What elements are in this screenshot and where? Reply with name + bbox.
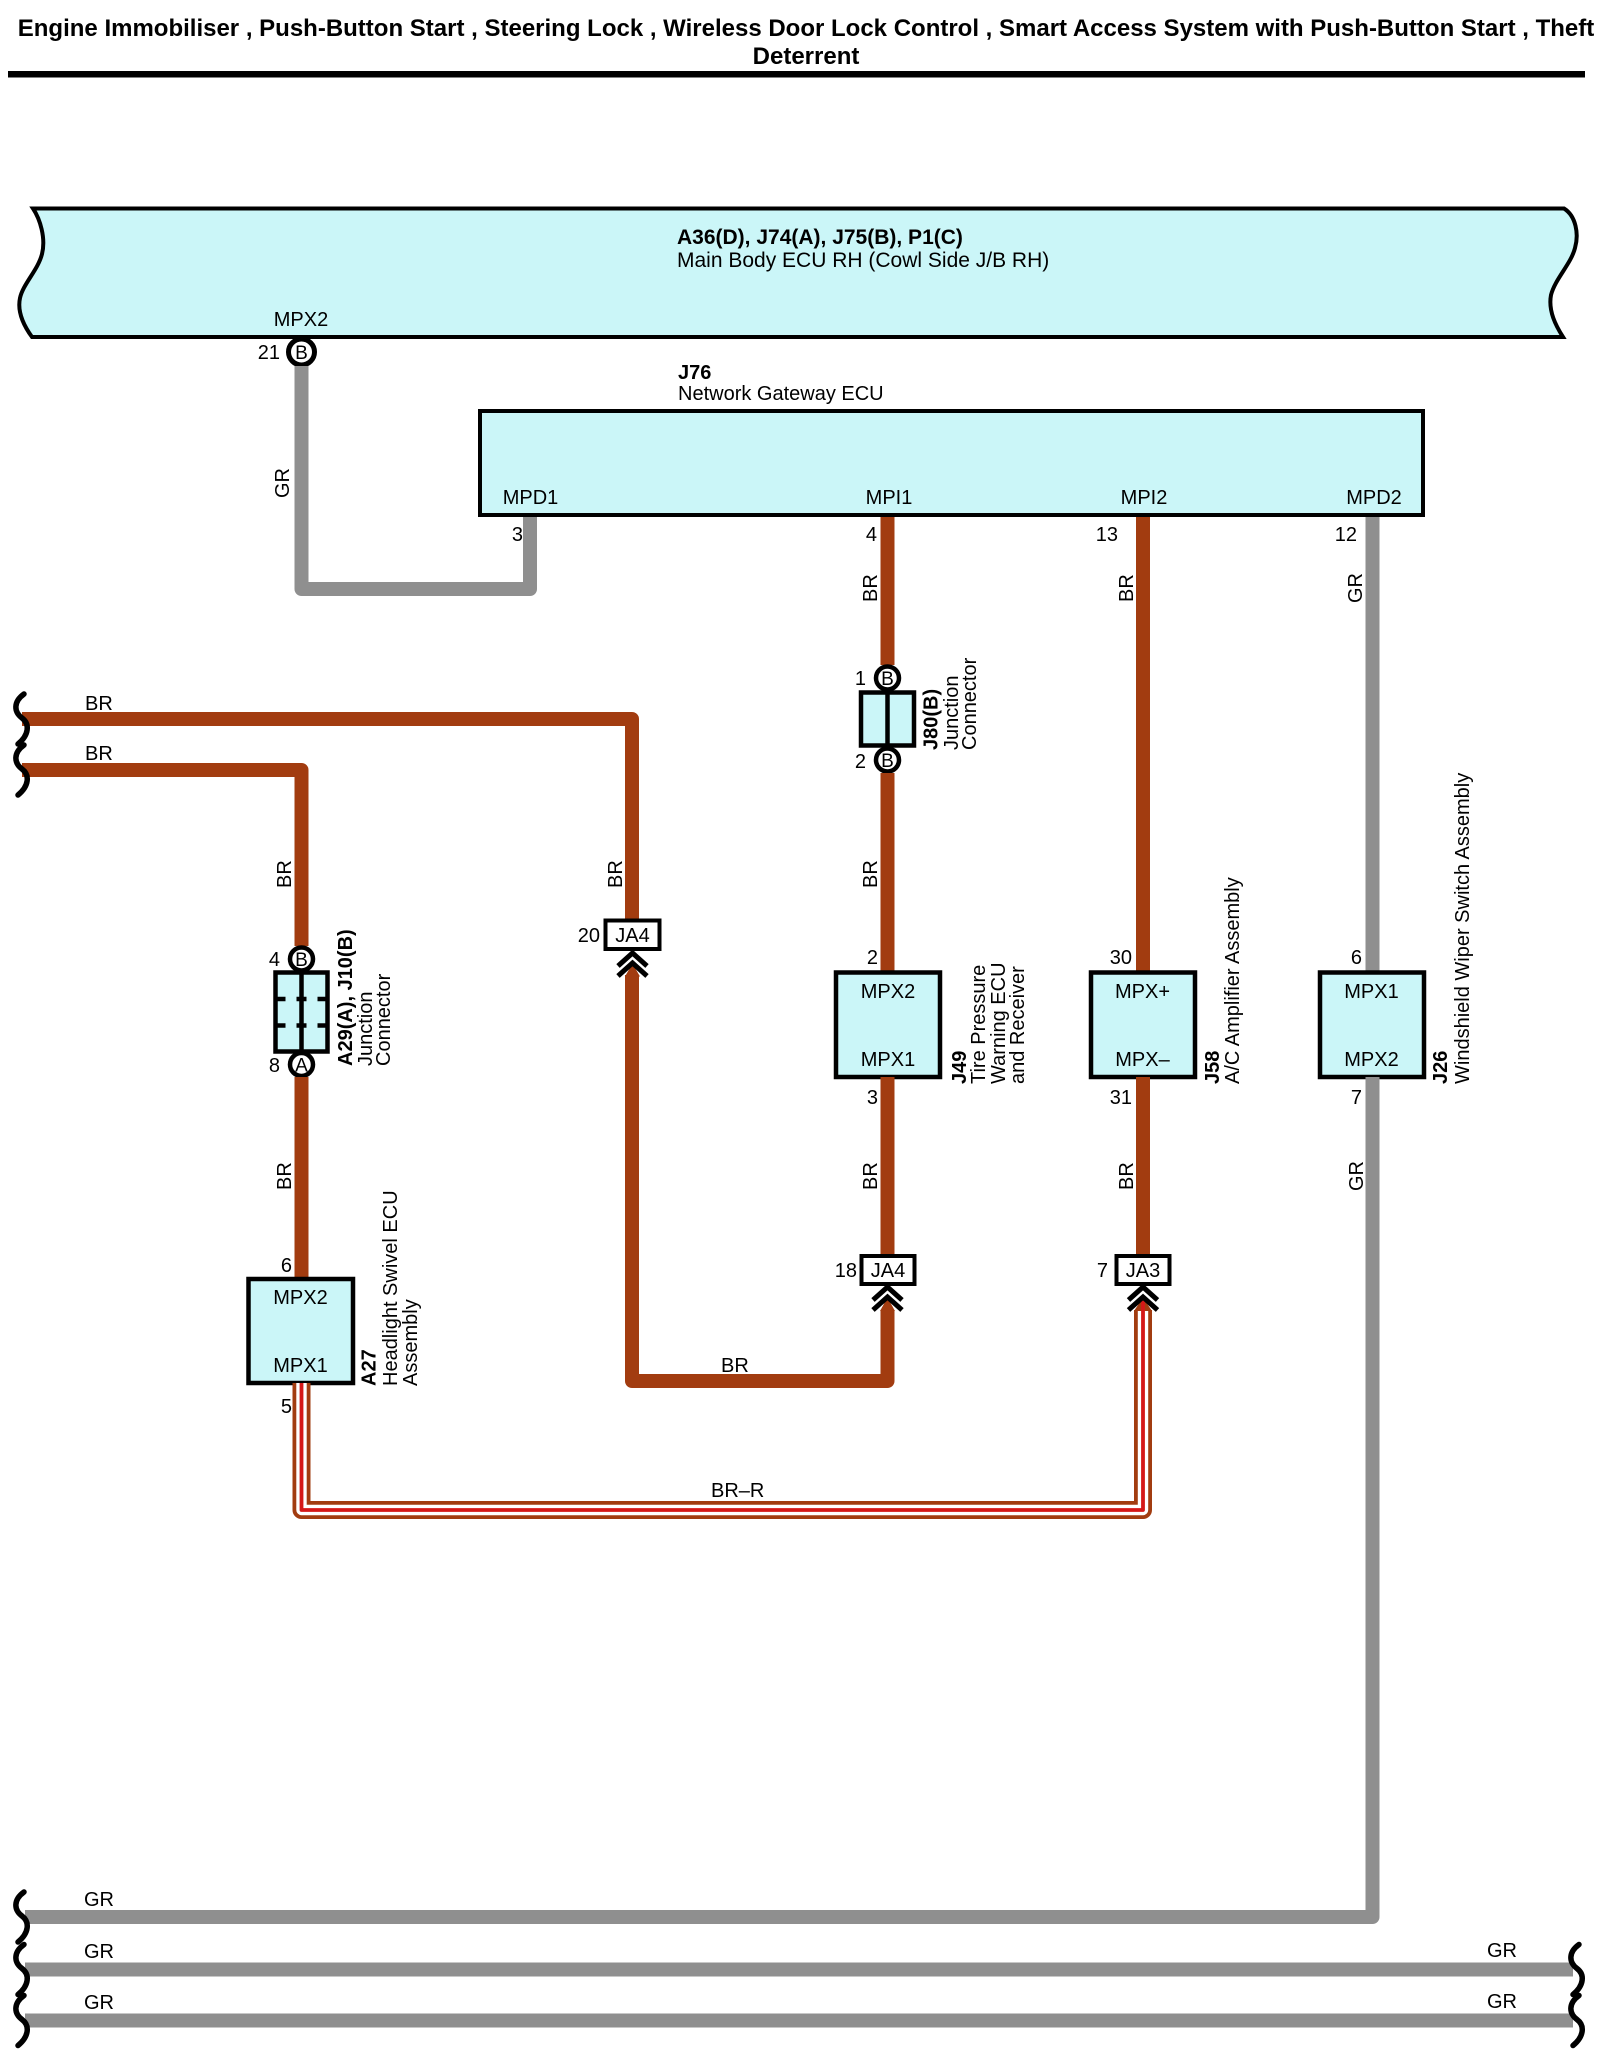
svg-text:BR: BR <box>860 574 882 602</box>
svg-text:3: 3 <box>512 524 523 546</box>
svg-text:MPD1: MPD1 <box>503 487 559 509</box>
svg-text:MPX2: MPX2 <box>1344 1049 1398 1071</box>
svg-text:JA4: JA4 <box>615 925 649 947</box>
svg-text:A: A <box>295 1056 308 1077</box>
svg-text:Connector: Connector <box>373 973 395 1066</box>
svg-text:Headlight Swivel ECU: Headlight Swivel ECU <box>380 1190 402 1386</box>
svg-text:7: 7 <box>1097 1260 1108 1282</box>
svg-text:5: 5 <box>281 1396 292 1418</box>
wire GR bottom horizontal 2 <box>25 1963 1573 1977</box>
ECU box J26 Windshield Wiper Switch Assembly <box>1320 773 1474 1109</box>
svg-text:GR: GR <box>1487 1940 1517 1962</box>
svg-text:A29(A), J10(B): A29(A), J10(B) <box>335 929 357 1066</box>
wire BR horizontal 2 to A29 junction <box>22 770 302 946</box>
svg-text:Connector: Connector <box>959 657 981 750</box>
svg-text:J26: J26 <box>1430 1051 1452 1084</box>
svg-text:GR: GR <box>1345 573 1367 603</box>
svg-text:J80(B): J80(B) <box>921 689 943 750</box>
wire BR A29 pin8 to A27 pin6 <box>295 1077 309 1279</box>
wire BR J76 MPI1 pin4 to J80 pin1 <box>881 517 895 665</box>
svg-text:B: B <box>881 669 894 690</box>
svg-text:B: B <box>881 751 894 772</box>
svg-text:30: 30 <box>1110 947 1132 969</box>
svg-text:Engine Immobiliser , Push-Butt: Engine Immobiliser , Push-Button Start ,… <box>18 15 1594 42</box>
svg-text:MPX2: MPX2 <box>861 981 915 1003</box>
svg-text:MPX2: MPX2 <box>274 309 328 331</box>
svg-text:BR: BR <box>605 860 627 888</box>
svg-text:Tire Pressure: Tire Pressure <box>968 965 990 1084</box>
svg-text:31: 31 <box>1110 1087 1132 1109</box>
wire BR J80 pin2 to J49 pin2 <box>881 773 895 973</box>
title underline <box>8 71 1585 78</box>
svg-text:Deterrent: Deterrent <box>753 43 860 70</box>
svg-text:BR: BR <box>274 1162 296 1190</box>
wire BR-R A27 pin5 to JA3(7) <box>302 1310 1144 1510</box>
svg-text:BR: BR <box>85 693 113 715</box>
title <box>18 15 1594 70</box>
svg-text:MPX+: MPX+ <box>1115 981 1170 1003</box>
junction connector A29(A), J10(B) <box>269 929 395 1077</box>
svg-text:8: 8 <box>269 1055 280 1077</box>
svg-text:13: 13 <box>1096 524 1118 546</box>
ECU box J49 Tire Pressure Warning ECU and Receiver <box>836 947 1029 1109</box>
squiggle wire break (wire 2 left) <box>16 745 27 795</box>
svg-text:MPX1: MPX1 <box>861 1049 915 1071</box>
wire BR horizontal top-left to JA4(20) <box>22 719 632 921</box>
svg-text:BR: BR <box>1116 1162 1138 1190</box>
wire GR J76 MPD2 pin12 to J26 <box>1366 517 1380 973</box>
svg-text:20: 20 <box>578 925 600 947</box>
svg-text:JA3: JA3 <box>1126 1260 1160 1282</box>
wire GR bottom horizontal 3 <box>25 2014 1573 2028</box>
svg-text:21: 21 <box>258 342 280 364</box>
wire BR J58 pin31 to JA3(7) <box>1136 1077 1150 1256</box>
svg-text:JA4: JA4 <box>871 1260 905 1282</box>
squiggle wire break (wire 1 left) <box>16 694 27 744</box>
svg-text:GR: GR <box>272 468 294 498</box>
wire GR J26 pin7 down to bottom horizontal <box>25 1077 1373 1917</box>
pointed wire cap below JA3(7) <box>1134 1298 1152 1312</box>
wire GR from 21(B) to J76 MPD1 pin 3 <box>302 366 531 589</box>
svg-text:A/C Amplifier Assembly: A/C Amplifier Assembly <box>1222 877 1244 1084</box>
svg-text:BR: BR <box>1116 574 1138 602</box>
svg-text:Windshield Wiper Switch Assemb: Windshield Wiper Switch Assembly <box>1452 773 1474 1084</box>
squiggle wire break (bottom wire 3 right) <box>1571 1996 1582 2046</box>
ECU box J76 Network Gateway ECU <box>480 362 1423 515</box>
svg-text:B: B <box>295 343 308 364</box>
svg-text:MPI1: MPI1 <box>866 487 913 509</box>
svg-text:2: 2 <box>855 751 866 773</box>
wire BR J49 pin3 to JA4(18) <box>881 1077 895 1256</box>
svg-text:3: 3 <box>867 1087 878 1109</box>
squiggle wire break (bottom wire 2 right) <box>1571 1945 1582 1995</box>
pointed wire cap below JA4(20) <box>625 964 640 977</box>
svg-text:GR: GR <box>84 1941 114 1963</box>
svg-text:GR: GR <box>1346 1161 1368 1191</box>
red stripe tip below JA3(7) <box>1141 1301 1145 1311</box>
connector JA4 (pin 18) <box>835 1256 915 1310</box>
svg-text:BR: BR <box>85 743 113 765</box>
svg-text:J58: J58 <box>1202 1051 1224 1084</box>
pin 21 connector circle B <box>258 339 315 365</box>
squiggle wire break (bottom wire 1 left) <box>16 1892 27 1942</box>
svg-text:MPX2: MPX2 <box>273 1287 327 1309</box>
wire BR J76 MPI2 pin13 to J58 <box>1136 517 1150 973</box>
svg-text:GR: GR <box>84 1889 114 1911</box>
svg-text:2: 2 <box>867 947 878 969</box>
svg-text:7: 7 <box>1351 1087 1362 1109</box>
ECU bar A36(D),J74(A),J75(B),P1(C) Main Body ECU RH <box>19 209 1576 338</box>
svg-text:BR–R: BR–R <box>711 1480 764 1502</box>
svg-text:BR: BR <box>274 860 296 888</box>
svg-text:BR: BR <box>721 1355 749 1377</box>
connector JA3 (pin 7) <box>1097 1256 1170 1310</box>
svg-text:A27: A27 <box>359 1349 381 1386</box>
svg-text:A36(D), J74(A), J75(B), P1(C): A36(D), J74(A), J75(B), P1(C) <box>677 226 963 249</box>
svg-text:MPX1: MPX1 <box>273 1355 327 1377</box>
svg-text:GR: GR <box>84 1992 114 2014</box>
svg-text:6: 6 <box>1351 947 1362 969</box>
svg-text:MPX1: MPX1 <box>1344 981 1398 1003</box>
junction connector J80(B) <box>855 657 981 773</box>
svg-text:GR: GR <box>1487 1991 1517 2013</box>
wire BR from JA4(20) down, across, up to JA4(18) <box>632 975 888 1381</box>
svg-text:Assembly: Assembly <box>400 1299 422 1386</box>
svg-text:4: 4 <box>866 524 877 546</box>
svg-text:1: 1 <box>855 668 866 690</box>
svg-text:12: 12 <box>1335 524 1357 546</box>
svg-text:MPD2: MPD2 <box>1346 487 1402 509</box>
connector JA4 (pin 20) <box>578 921 660 977</box>
squiggle wire break (bottom wire 2 left) <box>16 1945 27 1995</box>
ECU box A27 Headlight Swivel ECU Assembly <box>249 1190 423 1418</box>
svg-text:4: 4 <box>269 949 280 971</box>
svg-text:BR: BR <box>860 1162 882 1190</box>
svg-text:MPI2: MPI2 <box>1121 487 1168 509</box>
svg-text:Main Body ECU RH (Cowl Side J/: Main Body ECU RH (Cowl Side J/B RH) <box>677 249 1049 272</box>
ECU box J58 A/C Amplifier Assembly <box>1091 877 1244 1109</box>
svg-text:J76: J76 <box>678 362 711 384</box>
pointed wire cap below JA4(18) <box>880 1298 895 1312</box>
svg-text:6: 6 <box>281 1255 292 1277</box>
svg-text:18: 18 <box>835 1260 857 1282</box>
svg-text:B: B <box>295 950 308 971</box>
svg-text:MPX–: MPX– <box>1115 1049 1170 1071</box>
squiggle wire break (bottom wire 3 left) <box>16 1996 27 2046</box>
svg-text:Network Gateway ECU: Network Gateway ECU <box>678 383 884 405</box>
svg-text:BR: BR <box>860 860 882 888</box>
svg-text:and Receiver: and Receiver <box>1007 966 1029 1084</box>
